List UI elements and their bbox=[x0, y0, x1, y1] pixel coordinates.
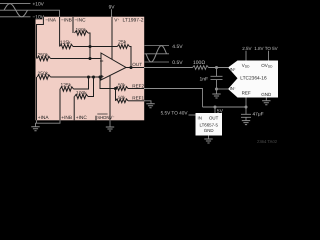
wire R to IN+ bbox=[209, 67, 229, 69]
node inv junction upper bbox=[88, 45, 91, 48]
wire REF1 inside bbox=[128, 100, 144, 102]
svg-text:1.8V TO 5V: 1.8V TO 5V bbox=[254, 46, 277, 51]
wire VDD stub bbox=[245, 51, 247, 61]
wire 5V rail to REF bbox=[203, 106, 247, 108]
wire +INA lead bbox=[36, 77, 38, 120]
ground REF1 bbox=[146, 104, 154, 108]
wire noninv to 50k divider bbox=[100, 77, 116, 89]
op-amp A1 bbox=[101, 53, 126, 80]
svg-text:SHDN: SHDN bbox=[97, 115, 109, 120]
svg-text:+INA: +INA bbox=[38, 115, 50, 121]
svg-text:50k: 50k bbox=[118, 83, 126, 88]
svg-text:LT1997-2: LT1997-2 bbox=[123, 18, 144, 24]
svg-text:100k: 100k bbox=[76, 28, 87, 34]
ground input bias bbox=[31, 127, 39, 131]
svg-text:OVDD: OVDD bbox=[261, 63, 273, 69]
node noninv junction 100k bbox=[92, 75, 95, 78]
ground 1nF node bbox=[216, 89, 218, 94]
resistor 250k upper bbox=[37, 56, 51, 60]
wire -INA lead bbox=[37, 17, 44, 59]
wire feedback to OUT bbox=[130, 47, 132, 68]
svg-text:2364 TA02: 2364 TA02 bbox=[257, 139, 278, 144]
wire 125k to 25k bbox=[73, 46, 117, 48]
svg-text:+INB: +INB bbox=[61, 115, 72, 121]
svg-text:REF1: REF1 bbox=[132, 96, 144, 101]
svg-text:+INC: +INC bbox=[76, 115, 88, 121]
node 5V junction bbox=[213, 105, 216, 108]
wire inv rail bbox=[51, 58, 102, 60]
svg-text:VDD: VDD bbox=[242, 63, 250, 69]
node junction at 1nF bbox=[215, 66, 218, 69]
capacitor 1nF bbox=[211, 68, 223, 90]
svg-text:250k: 250k bbox=[38, 71, 49, 77]
ground V- bbox=[106, 127, 114, 131]
svg-text:4.5V: 4.5V bbox=[172, 44, 183, 50]
wire REF1 to ground bbox=[144, 101, 151, 104]
input sine waveform bbox=[4, 4, 28, 17]
capacitor 47uF bbox=[241, 107, 251, 121]
wire 125k lower riser bbox=[74, 77, 89, 89]
block LT1997-2 body bbox=[36, 17, 145, 121]
wire input -10V rail bbox=[0, 16, 31, 18]
svg-text:100Ω: 100Ω bbox=[193, 60, 205, 66]
wire REF2 inside bbox=[128, 88, 144, 90]
wire V- to ground bbox=[109, 120, 111, 127]
svg-text:47μF: 47μF bbox=[253, 112, 264, 118]
svg-text:2.5V: 2.5V bbox=[242, 46, 251, 51]
wire OUT to R bbox=[144, 67, 193, 69]
wire V- lead bbox=[109, 75, 111, 120]
wire LT6657 GND drop bbox=[208, 136, 210, 140]
wire input signal to -INB bbox=[0, 10, 60, 17]
wire 100k lower riser bbox=[88, 77, 94, 97]
svg-text:REF: REF bbox=[242, 91, 251, 96]
ground 47uF bbox=[242, 121, 250, 125]
svg-text:250k: 250k bbox=[38, 53, 49, 59]
svg-text:25k: 25k bbox=[118, 40, 126, 46]
node REF junction bbox=[244, 105, 247, 108]
node feedback junction bbox=[129, 66, 132, 69]
label -10V bbox=[31, 14, 43, 20]
svg-text:IN: IN bbox=[198, 116, 202, 121]
svg-text:1nF: 1nF bbox=[200, 76, 209, 82]
svg-text:−10V: −10V bbox=[33, 15, 45, 21]
resistor 50k REF1 bbox=[116, 99, 129, 103]
svg-text:+10V: +10V bbox=[33, 2, 45, 8]
wire -INC lead bbox=[72, 17, 74, 33]
wire SHDN tick bbox=[95, 116, 97, 121]
wire noninv rail bbox=[51, 76, 102, 78]
wire OVDD stub bbox=[268, 51, 270, 61]
output sine waveform bbox=[146, 46, 167, 62]
wire 9V to V+ bbox=[111, 9, 113, 17]
wire REF2 to 5V node bbox=[144, 89, 203, 108]
wire REF stub bbox=[245, 98, 247, 108]
svg-text:125k: 125k bbox=[61, 83, 72, 89]
resistor 250k lower bbox=[37, 75, 51, 79]
svg-text:OUT: OUT bbox=[209, 116, 219, 121]
svg-text:REF2: REF2 bbox=[132, 83, 144, 88]
svg-text:50k: 50k bbox=[118, 95, 126, 100]
wire +INA/+INB to ground bbox=[36, 120, 61, 127]
resistor 50k REF2 bbox=[116, 87, 129, 91]
wire output 0.5V rail bbox=[145, 61, 170, 63]
svg-text:GND: GND bbox=[261, 92, 272, 97]
svg-text:GND: GND bbox=[204, 128, 214, 133]
resistor 100ohm bbox=[193, 66, 209, 70]
wire output mid rail bbox=[145, 53, 170, 55]
svg-text:OUT: OUT bbox=[132, 62, 142, 67]
wire +INB lead bbox=[59, 89, 61, 120]
wire +INC lead bbox=[73, 97, 75, 121]
wire ADC GND stub bbox=[265, 98, 267, 101]
wire V+ lead bbox=[111, 17, 113, 60]
svg-text:LTC2364-16: LTC2364-16 bbox=[240, 76, 267, 82]
ground LT6657 bbox=[204, 139, 212, 143]
wire LT6657 IN bbox=[189, 114, 196, 116]
resistor 100k upper bbox=[75, 31, 89, 35]
node inv junction lower bbox=[88, 57, 91, 60]
node junction IN- net bbox=[215, 87, 218, 90]
reference U2 LT6657-5 body bbox=[196, 113, 223, 136]
wire LT6657 OUT riser bbox=[214, 107, 216, 113]
resistor 25k feedback bbox=[117, 45, 129, 49]
wire 50k link bbox=[115, 89, 117, 101]
svg-text:−INA: −INA bbox=[45, 18, 57, 24]
wire output 4.5V rail bbox=[145, 45, 170, 47]
wire to IN- bbox=[217, 88, 229, 90]
svg-text:−INC: −INC bbox=[75, 18, 87, 24]
wire input +10V rail bbox=[0, 3, 31, 5]
wire -INB lead bbox=[59, 17, 61, 47]
node 50k divider junction bbox=[114, 87, 117, 90]
svg-text:0.5V: 0.5V bbox=[172, 60, 183, 66]
node noninv junction 125k bbox=[87, 75, 90, 78]
wire 100k drop bbox=[88, 33, 90, 59]
svg-text:125k: 125k bbox=[60, 40, 71, 46]
svg-text:100k: 100k bbox=[76, 91, 87, 97]
resistor 100k lower bbox=[75, 94, 89, 98]
wire op-amp output bbox=[126, 67, 144, 69]
ADC U1 LTC2364-16 body bbox=[228, 61, 278, 98]
ground ADC GND bbox=[262, 101, 270, 105]
svg-text:−INB: −INB bbox=[61, 18, 72, 24]
node noninv drop junction bbox=[98, 75, 101, 78]
svg-text:5.5V TO 40V: 5.5V TO 40V bbox=[161, 110, 189, 115]
resistor 125k lower bbox=[60, 87, 74, 91]
svg-text:LT6657-5: LT6657-5 bbox=[199, 122, 218, 127]
resistor 125k upper bbox=[60, 44, 73, 48]
